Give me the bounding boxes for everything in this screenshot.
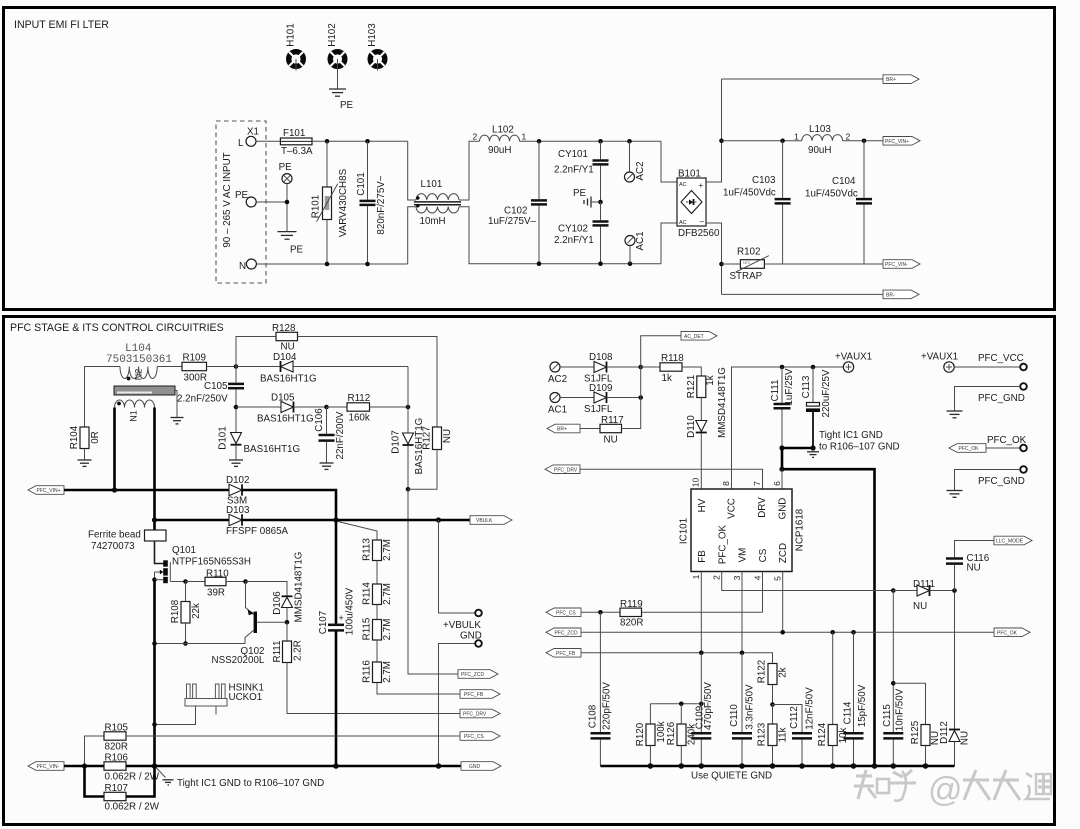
ZCD to PFC_OK vertical link [892, 591, 894, 633]
winding legs [113, 408, 116, 491]
svg-text:2.2R: 2.2R [293, 640, 304, 661]
svg-text:C115: C115 [882, 704, 893, 727]
capacitor C112 12nF/50V [773, 687, 816, 766]
resistor R128 NU [236, 323, 437, 427]
diode D107 BAS16HT1G [391, 367, 426, 492]
PE earth stub mid [573, 188, 603, 208]
svg-text:C105: C105 [204, 381, 228, 392]
svg-text:L101: L101 [421, 179, 443, 190]
source node wire [155, 643, 246, 645]
top rail L102 to bridge [520, 140, 662, 142]
fuse F101 T-6.3A [280, 128, 313, 157]
IC GND node wire [782, 447, 813, 450]
diode D101 BAS16HT1G [218, 426, 301, 460]
capacitor C114 15pF/50V [843, 632, 869, 766]
svg-text:22k: 22k [191, 603, 202, 619]
terminal AC2 (bottom) [548, 362, 594, 385]
diode D109 S1JFL [584, 383, 643, 415]
resistor R126 240k [666, 704, 697, 766]
svg-text:AC1: AC1 [548, 405, 567, 416]
svg-text:S1JFL: S1JFL [584, 404, 613, 415]
svg-text:220uF/25V: 220uF/25V [821, 369, 832, 417]
capacitor CY101 2.2nF/Y1 [554, 141, 609, 202]
svg-text:GND: GND [778, 498, 789, 520]
svg-text:INPUT EMI FI LTER: INPUT EMI FI LTER [14, 19, 109, 31]
svg-text:1uF/275V–: 1uF/275V– [488, 216, 536, 227]
svg-text:T–6.3A: T–6.3A [281, 146, 313, 157]
terminal PFC_VCC [954, 353, 1027, 370]
capacitor CY102 2.2nF/Y1 [554, 202, 609, 264]
resistor R109 300R [182, 353, 238, 384]
svg-text:D101: D101 [218, 426, 229, 449]
resistor R106 0.062R/2W [64, 753, 160, 783]
resistor R104 0R [69, 425, 101, 460]
svg-text:220pF/50V: 220pF/50V [602, 682, 613, 730]
svg-text:NU: NU [604, 435, 618, 446]
svg-text:NCP1618: NCP1618 [795, 508, 806, 551]
diode D104 BAS16HT1G [236, 352, 408, 385]
ground (PFC_GND 1) [947, 411, 963, 418]
svg-text:N1: N1 [128, 410, 138, 422]
svg-text:15pF/50V: 15pF/50V [857, 684, 868, 727]
ground (C106) [320, 463, 334, 469]
svg-text:100u/450V: 100u/450V [345, 587, 356, 635]
svg-text:2.2nF/Y1: 2.2nF/Y1 [554, 165, 594, 176]
svg-text:PFC_DRV: PFC_DRV [463, 712, 487, 718]
svg-text:2.2nF/250V: 2.2nF/250V [177, 394, 228, 405]
resistor R117 NU [580, 415, 641, 446]
svg-text:D108: D108 [589, 352, 613, 363]
svg-text:PFC_GND: PFC_GND [978, 393, 1025, 404]
svg-text:8: 8 [721, 481, 731, 486]
svg-text:PE: PE [340, 100, 354, 111]
resistor R124 10k [817, 632, 849, 766]
svg-text:DFB2560: DFB2560 [678, 228, 720, 239]
PFC_DRV wire to pin7 [580, 469, 763, 489]
svg-text:NSS20200L: NSS20200L [212, 655, 265, 666]
svg-text:MMSD4148T1G: MMSD4148T1G [717, 367, 728, 438]
divider chain from VBULK [338, 522, 377, 541]
svg-text:R114: R114 [362, 582, 373, 605]
resistor R125 NU [893, 683, 941, 766]
svg-text:2.7M: 2.7M [382, 661, 393, 683]
svg-text:F101: F101 [283, 128, 305, 139]
svg-text:+VAUX1: +VAUX1 [835, 352, 872, 363]
svg-text:H102: H102 [327, 23, 338, 46]
svg-text:C103: C103 [752, 175, 776, 186]
wire PE terminal to ground [256, 201, 287, 203]
svg-text:C114: C114 [843, 701, 854, 724]
svg-text:820nF/275V~: 820nF/275V~ [376, 175, 387, 234]
ground (C113) [807, 452, 819, 458]
svg-text:12nF/50V: 12nF/50V [805, 687, 816, 730]
PE lamp symbol [279, 162, 293, 184]
watermark zhihu [854, 770, 1051, 801]
svg-text:@: @ [928, 771, 963, 809]
VCC wire to VAUX [732, 367, 844, 489]
svg-text:820R: 820R [105, 742, 128, 753]
flag VBULK [470, 516, 512, 525]
svg-text:0.062R / 2W: 0.062R / 2W [105, 772, 160, 783]
diode D106 MMSD4148T1G [272, 552, 305, 625]
svg-text:10nF/50V: 10nF/50V [895, 688, 906, 731]
capacitor C105 2.2nF/250V [177, 367, 244, 433]
transformer L104 7503150361 [106, 343, 184, 541]
svg-text:PE: PE [573, 188, 587, 199]
terminal PFC_OK [949, 435, 1027, 452]
diode D111 NU [891, 579, 957, 612]
pin3 VM line [741, 572, 743, 653]
resistor R112 160k [327, 393, 411, 424]
ground PE under H102 [329, 89, 346, 96]
svg-text:+VAUX1: +VAUX1 [921, 352, 958, 363]
N rail wire [256, 263, 407, 265]
svg-text:0.062R / 2W: 0.062R / 2W [105, 802, 160, 813]
N2 winding [120, 367, 157, 379]
svg-text:–: – [700, 217, 705, 226]
svg-text:C113: C113 [801, 375, 812, 398]
resistor R123 11k [757, 705, 789, 767]
ground (shield) [171, 417, 184, 419]
note Tight IC1 GND (left) [156, 768, 324, 790]
+VBULK terminal [439, 520, 482, 631]
svg-text:R122: R122 [757, 660, 768, 683]
pin1 FB line [700, 572, 702, 653]
svg-text:C110: C110 [729, 704, 740, 727]
capacitor C113 220uF/25V [801, 367, 832, 448]
svg-text:22nF/200V: 22nF/200V [335, 411, 346, 459]
svg-text:R104: R104 [69, 425, 80, 449]
svg-text:NU: NU [960, 731, 971, 745]
capacitor C109 470pF/50V [691, 653, 714, 766]
capacitor C106 22nF/200V [314, 407, 346, 463]
section frame: PFC STAGE [4, 317, 1055, 825]
svg-text:PFC_DRV: PFC_DRV [554, 467, 578, 473]
flag LLC_MODE [994, 536, 1032, 545]
capacitor C101 820nF/275V [356, 141, 387, 264]
svg-text:10: 10 [691, 478, 701, 488]
svg-text:GND: GND [469, 764, 481, 770]
svg-text:AC1: AC1 [635, 231, 646, 250]
svg-text:PFC_OK: PFC_OK [959, 446, 980, 452]
Q101 source line [153, 580, 156, 766]
resistor R122 2k [757, 660, 789, 707]
VBULK rail thick [155, 519, 230, 522]
resistor R114 2.7M [362, 582, 394, 620]
svg-text:160k: 160k [349, 413, 370, 424]
svg-text:BR+: BR+ [886, 77, 896, 83]
flag PFC_VIN- (left) [28, 762, 64, 771]
diode D103 FFSPF 0865A [226, 505, 289, 537]
gate wire to D106 [246, 582, 288, 597]
flag BR+ (left) [547, 424, 580, 433]
svg-text:VBULK: VBULK [476, 518, 493, 524]
svg-text:BAS16HT1G: BAS16HT1G [244, 444, 301, 455]
terminal +VAUX1 [835, 352, 872, 373]
terminal +VAUX1 (right col) [921, 352, 958, 373]
capacitor C115 10nF/50V [882, 632, 906, 766]
capacitor C108 220pF/50V [588, 612, 613, 766]
svg-text:R120: R120 [635, 722, 646, 746]
svg-text:C111: C111 [770, 380, 781, 402]
svg-text:CY101: CY101 [558, 149, 588, 160]
resistor R116 2.7M [362, 660, 460, 694]
svg-text:C112: C112 [789, 706, 800, 729]
svg-text:2: 2 [846, 132, 851, 142]
varistor R101 VARV430CH8S [311, 141, 350, 264]
svg-text:R126: R126 [666, 721, 677, 745]
svg-text:Q101: Q101 [172, 545, 196, 556]
svg-text:AC2: AC2 [635, 161, 646, 180]
terminal PFC_GND (1) [955, 383, 1027, 411]
svg-text:PFC_VCC: PFC_VCC [978, 353, 1024, 364]
svg-text:10mH: 10mH [420, 216, 446, 227]
shield bar [114, 386, 175, 395]
wire N2 left to R104 [85, 367, 121, 428]
svg-text:PFC_OK: PFC_OK [718, 524, 729, 564]
svg-text:Tight IC1 GND to R106–107 GND: Tight IC1 GND to R106–107 GND [177, 778, 324, 789]
wires into bridge [661, 141, 677, 182]
flag PFC_FB (right) [460, 690, 500, 699]
svg-text:2.7M: 2.7M [382, 583, 393, 605]
svg-text:1uF/450Vdc: 1uF/450Vdc [723, 188, 776, 199]
resistor R121 1k [686, 375, 716, 421]
svg-text:UCKO1: UCKO1 [229, 692, 263, 703]
resistor R113 2.7M [362, 538, 394, 584]
svg-text:FB: FB [697, 550, 708, 563]
svg-text:470pF/50V: 470pF/50V [703, 682, 714, 730]
svg-text:0R: 0R [90, 431, 101, 444]
svg-text:D107: D107 [391, 430, 402, 453]
svg-text:PFC_ZCD: PFC_ZCD [555, 631, 578, 637]
flag PFC_VIN- (top) [883, 260, 920, 269]
flag PFC_DRV (right) [460, 709, 500, 718]
wire D107 down to PFC_ZCD [408, 489, 458, 674]
capacitor C111 1uF/25V [770, 367, 795, 448]
svg-text:PFC_VIN+: PFC_VIN+ [37, 488, 61, 494]
svg-text:R121: R121 [686, 375, 697, 398]
ground (PFC_GND 2) [947, 491, 963, 498]
svg-text:R113: R113 [362, 538, 373, 561]
flag PFC_FB (left) [546, 649, 581, 658]
svg-text:3.3nF/50V: 3.3nF/50V [745, 684, 756, 730]
section frame: INPUT EMI FILTER [4, 8, 1055, 310]
ferrite bead 74270073 [88, 530, 166, 553]
flag PFC_VIN+ (left) [28, 486, 64, 495]
mounting hole H103 [367, 23, 385, 71]
svg-text:C106: C106 [314, 408, 325, 432]
GND rail (left) [155, 765, 462, 768]
svg-text:+: + [339, 613, 344, 623]
svg-text:7: 7 [752, 481, 762, 486]
svg-text:2k: 2k [778, 667, 789, 677]
pin6 stub [781, 469, 783, 489]
terminal AC2 (top) [625, 141, 647, 182]
svg-text:D109: D109 [589, 383, 612, 394]
svg-text:AC: AC [679, 220, 687, 226]
svg-text:VM: VM [738, 548, 749, 563]
inductor L102 90uH [473, 125, 527, 157]
PFC_ZCD wire [581, 631, 893, 633]
svg-text:R102: R102 [737, 247, 760, 258]
svg-text:AC: AC [679, 182, 687, 188]
svg-text:L102: L102 [492, 125, 514, 136]
svg-text:1k: 1k [662, 373, 672, 384]
flag PFC_VIN+ (top) [883, 137, 920, 146]
svg-text:PFC_VIN-: PFC_VIN- [885, 262, 908, 268]
svg-text:2: 2 [473, 132, 478, 142]
resistor R107 0.062R/2W [85, 766, 160, 813]
pin5 ZCD line [782, 572, 784, 633]
PFC_FB wire [581, 653, 773, 664]
svg-text:R124: R124 [817, 722, 828, 746]
mounting hole H101 [286, 23, 304, 70]
svg-text:BR-: BR- [886, 293, 895, 299]
svg-text:10k: 10k [838, 728, 849, 744]
capacitor C104 1uF/450Vdc [805, 141, 872, 264]
PFC_VIN- rail [783, 263, 883, 265]
svg-text:PE: PE [279, 162, 293, 173]
flag PFC_OK (right) [994, 628, 1030, 637]
svg-text:CY102: CY102 [558, 224, 588, 235]
svg-text:to R106–107 GND: to R106–107 GND [819, 442, 900, 453]
wire H102 to PE ground [337, 59, 339, 89]
BR- wire and flag [722, 293, 884, 295]
resistor R119 820R [581, 599, 763, 629]
svg-text:L103: L103 [809, 124, 831, 135]
svg-text:BR+: BR+ [557, 427, 567, 433]
svg-text:MMSD4148T1G: MMSD4148T1G [294, 552, 305, 623]
resistor R105 820R [85, 723, 461, 767]
bridge output wires [706, 79, 722, 182]
svg-text:1uF/450Vdc: 1uF/450Vdc [805, 189, 858, 200]
svg-text:1uF/25V: 1uF/25V [784, 368, 795, 406]
svg-text:1k: 1k [705, 375, 716, 385]
GND terminal [439, 631, 482, 767]
wire L to fuse [256, 140, 280, 142]
svg-text:90uH: 90uH [488, 145, 511, 156]
svg-text:BAS16HT1G: BAS16HT1G [257, 414, 314, 425]
common-mode choke L101 10mH [408, 141, 539, 264]
svg-text:Use QUIETE GND: Use QUIETE GND [691, 771, 772, 782]
svg-text:R111: R111 [272, 641, 283, 663]
capacitor C116 NU [946, 541, 994, 592]
svg-text:1: 1 [794, 132, 799, 142]
svg-text:PE: PE [290, 245, 304, 256]
PFC_VIN+ rail (top) [722, 140, 802, 142]
svg-text:39R: 39R [207, 588, 225, 599]
N1 winding [115, 400, 155, 407]
flag PFC_ZCD (right) [458, 670, 498, 679]
wire fuse to L101, junctions [312, 140, 408, 142]
resistor R118 1k [641, 353, 702, 384]
GND bus thick to rail [782, 448, 875, 766]
diode D108 S1JFL [584, 352, 643, 385]
svg-text:H103: H103 [367, 23, 378, 47]
resistor R120 100k [635, 704, 667, 766]
svg-text:VARV430CH8S: VARV430CH8S [338, 168, 349, 237]
flag PFC_DRV (left) [545, 465, 580, 474]
terminal AC1 (top) [625, 231, 646, 263]
svg-text:3: 3 [732, 575, 742, 580]
diode D105 BAS16HT1G [236, 393, 329, 425]
svg-text:6: 6 [772, 481, 782, 486]
svg-text:VCC: VCC [727, 498, 738, 519]
svg-text:R101: R101 [311, 195, 322, 218]
pin2 PFC_OK line [722, 572, 894, 591]
R120/R126 top wire [650, 703, 701, 705]
svg-text:Ferrite bead: Ferrite bead [88, 530, 141, 541]
svg-text:4: 4 [752, 575, 762, 580]
terminal AC1 (bottom) [548, 393, 594, 416]
svg-text:STRAP: STRAP [730, 271, 763, 282]
svg-text:H101: H101 [286, 23, 297, 46]
svg-text:R115: R115 [362, 617, 373, 640]
BR+ wire and flag [722, 78, 884, 80]
svg-text:PFC_ZCD: PFC_ZCD [461, 672, 484, 678]
pin4 CS line [762, 572, 764, 613]
svg-text:R123: R123 [757, 722, 768, 746]
flag PFC_CS (right) [460, 732, 500, 741]
svg-text:DRV: DRV [757, 497, 768, 518]
svg-text:C108: C108 [588, 704, 599, 728]
svg-text:PFC_VIN+: PFC_VIN+ [885, 139, 909, 145]
svg-text:D106: D106 [272, 591, 283, 615]
D102 out to VBULK rail [242, 490, 336, 520]
svg-text:820R: 820R [620, 618, 643, 629]
inductor L103 90uH [794, 124, 851, 156]
svg-text:+VBULK: +VBULK [443, 620, 481, 631]
capacitor C102 1uF/275V [488, 141, 547, 263]
svg-text:ZCD: ZCD [778, 543, 789, 563]
svg-text:5: 5 [773, 576, 783, 581]
svg-text:CS: CS [758, 548, 769, 562]
svg-text:1: 1 [522, 132, 527, 142]
svg-text:PFC_OK: PFC_OK [997, 631, 1018, 637]
svg-text:PFC_FB: PFC_FB [556, 651, 576, 657]
mounting hole H102 [327, 23, 345, 66]
AC_DET wire and flag [641, 336, 681, 429]
capacitor C103 1uF/450Vdc [723, 141, 791, 264]
resistor R127 NU [408, 426, 453, 489]
svg-text:PFC STAGE & ITS CONTROL CIRCUI: PFC STAGE & ITS CONTROL CIRCUITRIES [10, 322, 224, 334]
resistor R115 2.7M [362, 617, 394, 662]
svg-text:FFSPF 0865A: FFSPF 0865A [226, 526, 289, 537]
svg-text:BAS16HT1G: BAS16HT1G [260, 374, 317, 385]
svg-text:IC101: IC101 [679, 518, 690, 544]
svg-text:2.7M: 2.7M [382, 539, 393, 561]
diode D110 MMSD4148T1G [686, 367, 728, 489]
PFC_VIN+ rail thick [64, 489, 229, 492]
svg-text:C107: C107 [318, 611, 329, 634]
svg-text:NTPF165N65S3H: NTPF165N65S3H [172, 557, 251, 568]
svg-text:7503150361: 7503150361 [106, 354, 172, 366]
diode D102 S3M [226, 475, 249, 507]
svg-text:PFC_GND: PFC_GND [978, 476, 1025, 487]
svg-text:AC_DET: AC_DET [684, 334, 704, 340]
svg-text:N: N [239, 261, 246, 272]
svg-text:90uH: 90uH [808, 145, 831, 156]
IC101 NCP1618 [679, 478, 806, 581]
svg-text:NTC: NTC [743, 261, 751, 265]
svg-text:R108: R108 [170, 599, 181, 623]
resistor R102 STRAP [722, 247, 783, 283]
bottom rail to bridge [539, 263, 661, 265]
ground (D101) [229, 460, 243, 466]
resistor R108 22k [170, 582, 202, 646]
bridge rectifier B101 DFB2560 [677, 169, 720, 240]
svg-text:PFC_OK: PFC_OK [987, 435, 1027, 446]
